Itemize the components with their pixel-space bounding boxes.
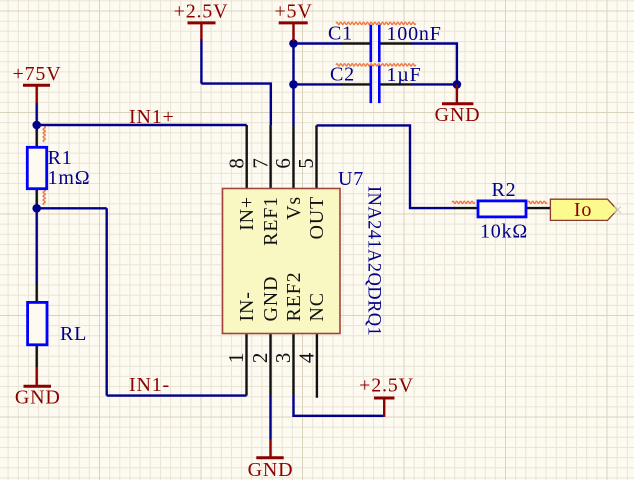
svg-text:INA241A2QDRQ1: INA241A2QDRQ1 xyxy=(364,186,384,336)
power +2.5V bottom right xyxy=(374,398,395,417)
svg-text:GND: GND xyxy=(15,387,61,409)
wire junction to R1 top xyxy=(36,125,38,131)
wire IN1+ horizontal xyxy=(37,124,247,126)
svg-text:10kΩ: 10kΩ xyxy=(480,221,528,243)
svg-text:1mΩ: 1mΩ xyxy=(48,167,91,189)
svg-text:C1: C1 xyxy=(328,23,353,45)
wire C1 left xyxy=(294,42,343,44)
wire +75V to IN1+ junction xyxy=(36,103,38,126)
pin C2 left xyxy=(341,83,370,85)
svg-text:+75V: +75V xyxy=(13,63,62,85)
ground GND top right xyxy=(442,84,473,103)
svg-text:2: 2 xyxy=(248,352,272,363)
svg-text:R2: R2 xyxy=(492,179,517,201)
junction R1 / IN1- xyxy=(32,204,41,213)
no-connect cross at port tip xyxy=(614,207,621,214)
resistor R1 xyxy=(27,147,46,188)
svg-text:RL: RL xyxy=(60,323,87,345)
svg-text:OUT: OUT xyxy=(306,196,328,240)
pin R2 left xyxy=(454,207,478,209)
wire GND center xyxy=(269,396,271,440)
svg-text:IN-: IN- xyxy=(236,291,258,321)
wire REF2 to +2.5V xyxy=(294,396,385,416)
svg-text:U7: U7 xyxy=(338,168,364,190)
compile squiggle above R1 xyxy=(43,127,45,142)
ground GND left xyxy=(24,367,52,386)
pin U7-6 Vs xyxy=(292,125,294,189)
pin U7-7 REF1 xyxy=(269,125,271,189)
svg-text:REF1: REF1 xyxy=(260,196,282,246)
svg-text:REF2: REF2 xyxy=(283,272,305,322)
pin C2 right xyxy=(381,83,412,85)
pin RL top xyxy=(36,284,38,303)
svg-text:1µF: 1µF xyxy=(387,64,422,86)
op-amp U7 INA241A2QDRQ1 body xyxy=(223,189,341,334)
wire +5V down to Vs xyxy=(292,39,294,125)
svg-text:IN+: IN+ xyxy=(236,196,258,231)
capacitor C2 xyxy=(371,66,380,104)
capacitor C1 xyxy=(371,25,380,63)
resistor RL xyxy=(28,302,47,344)
svg-text:Io: Io xyxy=(574,199,592,221)
pin U7-4 NC xyxy=(316,334,318,398)
svg-text:IN1+: IN1+ xyxy=(129,106,175,128)
wire +2.5V to REF1 xyxy=(201,84,270,125)
pin C1 right xyxy=(381,42,412,44)
wire C2 left xyxy=(294,83,343,85)
pin U7-3 REF2 xyxy=(292,334,294,397)
power +75V xyxy=(23,85,50,103)
ground GND bottom center xyxy=(256,439,283,458)
wire IN1- horizontal xyxy=(37,208,247,395)
pin U7-5 OUT xyxy=(315,125,317,188)
wire C2 right xyxy=(411,83,457,85)
port Io xyxy=(550,199,617,220)
pin R1 top xyxy=(36,128,38,147)
compile squiggle right of R2 xyxy=(528,201,547,203)
pin R2 right xyxy=(526,207,550,209)
pin U7-1 IN- xyxy=(245,334,247,396)
junction IN1+ / R1 xyxy=(32,121,41,130)
resistor R2 xyxy=(478,201,526,217)
compile squiggle below R1 xyxy=(43,190,45,205)
wire OUT to R2 xyxy=(317,125,456,208)
svg-text:4: 4 xyxy=(295,352,319,363)
wire C1 right to GND corner xyxy=(411,44,457,85)
svg-text:GND: GND xyxy=(260,276,282,322)
svg-text:+2.5V: +2.5V xyxy=(359,375,414,397)
junction +5V / C2 xyxy=(289,80,298,89)
svg-text:7: 7 xyxy=(248,157,272,168)
svg-text:C2: C2 xyxy=(330,64,355,86)
pin R1 bottom xyxy=(36,189,38,208)
wire R1 bottom to RL xyxy=(36,208,38,284)
power +2.5V top xyxy=(188,23,216,41)
svg-text:R1: R1 xyxy=(48,147,73,169)
svg-text:+5V: +5V xyxy=(274,1,312,23)
wire +2.5V down xyxy=(200,39,202,84)
svg-text:GND: GND xyxy=(435,104,481,126)
compile squiggle above C1 xyxy=(336,22,416,24)
junction C2 / GND xyxy=(453,80,462,89)
svg-text:NC: NC xyxy=(306,292,328,321)
svg-text:IN1-: IN1- xyxy=(129,374,170,396)
wire IN1- vertical xyxy=(105,208,107,395)
pin U7-2 GND xyxy=(269,334,271,397)
svg-text:6: 6 xyxy=(271,157,295,168)
svg-text:8: 8 xyxy=(224,157,248,168)
pin RL bottom xyxy=(36,345,38,367)
junction +5V / C1 xyxy=(289,39,298,48)
svg-text:5: 5 xyxy=(294,157,318,168)
compile squiggle above C2 xyxy=(336,64,416,66)
svg-text:Vs: Vs xyxy=(283,196,305,220)
svg-text:+2.5V: +2.5V xyxy=(174,1,229,23)
pin C1 left xyxy=(341,42,370,44)
compile squiggle left of R2 xyxy=(452,201,475,203)
svg-text:GND: GND xyxy=(248,459,294,480)
svg-text:3: 3 xyxy=(271,352,295,363)
svg-text:100nF: 100nF xyxy=(387,23,442,45)
svg-text:1: 1 xyxy=(224,352,248,363)
pin U7-8 IN+ xyxy=(245,125,247,189)
power +5V xyxy=(279,23,308,41)
